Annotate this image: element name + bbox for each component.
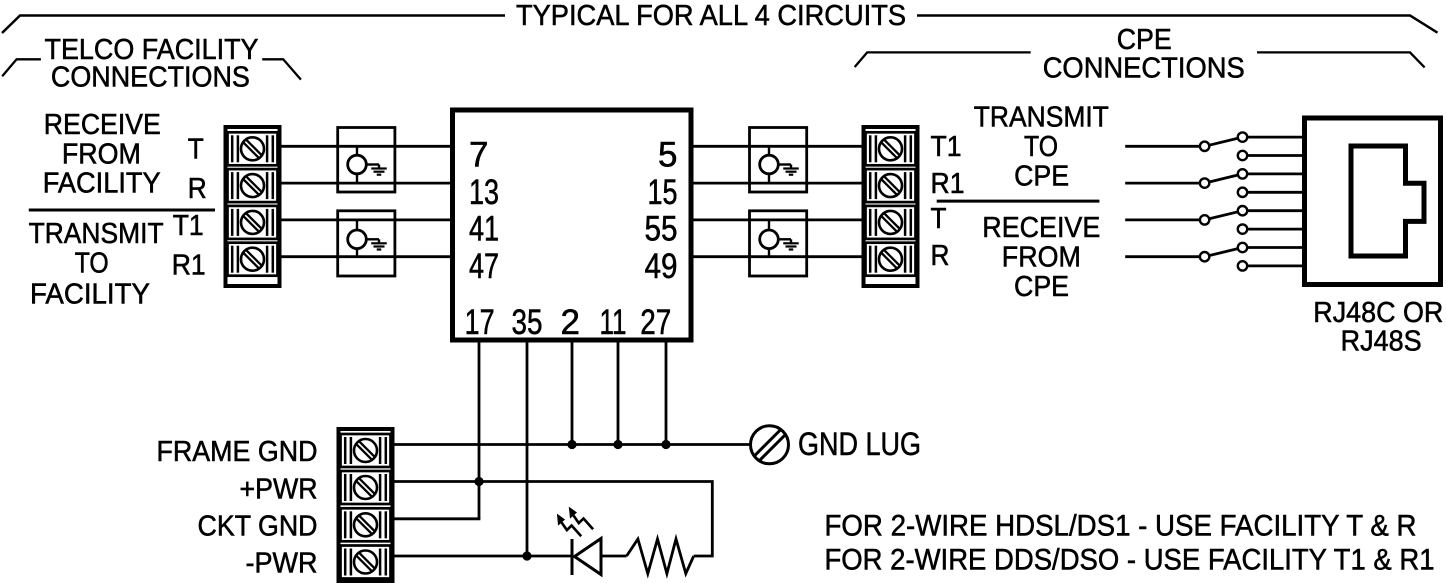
svg-text:T: T xyxy=(931,203,947,235)
svg-text:FOR 2-WIRE HDSL/DS1 - USE FACI: FOR 2-WIRE HDSL/DS1 - USE FACILITY T & R xyxy=(825,510,1417,543)
header line right xyxy=(917,16,1438,33)
switch SW3 throw contacts xyxy=(1238,206,1247,215)
junction pin35/-pwr xyxy=(522,551,531,560)
junction pin17/+pwr xyxy=(474,477,483,486)
switch SW4 throw contacts xyxy=(1238,243,1247,252)
wire IC pin 49 to CPE protector/block xyxy=(692,255,862,258)
cpe bracket right xyxy=(1257,52,1425,67)
wire FRAME GND row to gnd lug xyxy=(395,443,751,446)
svg-text:+PWR: +PWR xyxy=(240,473,318,505)
terminal block TB1 (telco) xyxy=(226,127,280,286)
TB3 terminal FRAME GND xyxy=(341,434,391,467)
wire switch feed 2 xyxy=(1125,182,1201,185)
svg-text:RECEIVE: RECEIVE xyxy=(982,212,1100,244)
surge protector box (cpe T/R) xyxy=(750,211,807,276)
wire throw 2b to jack xyxy=(1243,191,1305,194)
junction pin2/frame gnd xyxy=(567,440,576,449)
svg-text:CPE: CPE xyxy=(1014,271,1069,303)
wire switch feed 3 xyxy=(1125,218,1201,221)
svg-text:R: R xyxy=(931,240,950,272)
separator line right xyxy=(937,200,1100,203)
LED D1 triangle xyxy=(575,539,602,575)
svg-text:RJ48S: RJ48S xyxy=(1341,326,1422,358)
svg-text:T1: T1 xyxy=(931,131,962,163)
svg-text:FROM: FROM xyxy=(62,138,141,170)
switch SW1 blade xyxy=(1205,137,1243,146)
separator line left xyxy=(29,209,215,212)
terminal block TB3 (power) xyxy=(339,429,393,581)
TB2 terminal T1 xyxy=(866,132,916,165)
switch SW1 throw contacts xyxy=(1238,132,1247,141)
wire throw 3b to jack xyxy=(1243,228,1305,231)
svg-text:TO: TO xyxy=(75,248,109,280)
svg-text:7: 7 xyxy=(469,136,488,175)
svg-text:CONNECTIONS: CONNECTIONS xyxy=(1043,53,1245,85)
svg-text:TRANSMIT: TRANSMIT xyxy=(29,218,164,250)
telco bracket left xyxy=(2,59,41,76)
svg-text:RECEIVE: RECEIVE xyxy=(44,109,161,141)
junction pin11/frame gnd xyxy=(613,440,622,449)
TB3 terminal CKT GND xyxy=(341,508,391,541)
wire IC pin 5 to CPE protector/block xyxy=(692,145,862,148)
svg-text:TYPICAL FOR ALL 4 CIRCUITS: TYPICAL FOR ALL 4 CIRCUITS xyxy=(516,0,906,32)
svg-text:11: 11 xyxy=(600,303,627,342)
wire T1 row (telco block to IC pin 41) xyxy=(282,218,453,221)
wire throw 4b to jack xyxy=(1243,264,1305,267)
wire IC pin 11 vertical xyxy=(617,340,620,445)
svg-text:CPE: CPE xyxy=(1117,24,1172,56)
wire switch feed 4 xyxy=(1125,255,1201,258)
wire IC pin 35 vertical xyxy=(526,340,529,556)
wire throw 3a to jack xyxy=(1243,209,1305,212)
svg-text:GND LUG: GND LUG xyxy=(798,426,921,462)
surge protector box (cpe T1/R1) xyxy=(750,128,807,193)
svg-text:15: 15 xyxy=(648,173,678,212)
header line left xyxy=(2,16,505,34)
connector J1 RJ48 plug profile xyxy=(1351,146,1424,256)
TB1 terminal R xyxy=(228,169,278,202)
wire throw 2a to jack xyxy=(1243,172,1305,175)
wire R1 row (telco block to IC pin 47) xyxy=(282,255,453,258)
svg-text:35: 35 xyxy=(512,303,543,342)
switch SW2 blade xyxy=(1205,174,1243,183)
TB2 terminal R xyxy=(866,243,916,276)
wire +PWR row to resistor xyxy=(395,482,713,557)
wire CKT GND row xyxy=(395,517,481,520)
wire IC pin 15 to CPE protector/block xyxy=(692,182,862,185)
ground lug symbol xyxy=(751,426,789,464)
wire IC pin 27 vertical xyxy=(665,340,668,445)
resistor R1 xyxy=(627,539,694,574)
svg-text:47: 47 xyxy=(469,247,499,286)
switch SW2 throw contacts xyxy=(1238,169,1247,178)
svg-text:-PWR: -PWR xyxy=(246,547,318,579)
switch SW3 pole contact xyxy=(1200,215,1209,224)
svg-text:5: 5 xyxy=(658,136,677,175)
surge protector box (telco T1/R1) xyxy=(338,211,395,276)
svg-text:FROM: FROM xyxy=(1002,242,1081,274)
connector J1 RJ48 jack body xyxy=(1305,118,1441,285)
TB2 terminal R1 xyxy=(866,169,916,202)
switch SW4 pole contact xyxy=(1200,252,1209,261)
svg-text:R: R xyxy=(188,173,207,205)
terminal block TB2 (cpe) xyxy=(864,127,918,286)
svg-text:FOR 2-WIRE DDS/DSO - USE FACIL: FOR 2-WIRE DDS/DSO - USE FACILITY T1 & R… xyxy=(825,544,1435,577)
svg-text:FACILITY: FACILITY xyxy=(43,168,161,200)
svg-text:RJ48C OR: RJ48C OR xyxy=(1313,297,1443,329)
svg-text:R1: R1 xyxy=(172,250,206,282)
wire R row (telco block to IC pin 13) xyxy=(282,182,453,185)
svg-text:TO: TO xyxy=(1024,131,1058,163)
wire IC pin 17 vertical xyxy=(478,340,481,519)
svg-text:FRAME GND: FRAME GND xyxy=(157,436,318,468)
wire LED to resistor xyxy=(601,555,627,558)
svg-text:TRANSMIT: TRANSMIT xyxy=(974,102,1109,134)
svg-text:FACILITY: FACILITY xyxy=(30,278,150,310)
switch SW3 blade xyxy=(1205,211,1243,220)
wire IC pin 2 vertical xyxy=(571,340,574,445)
svg-text:41: 41 xyxy=(469,210,499,249)
TB3 terminal -PWR xyxy=(341,546,391,579)
svg-text:CONNECTIONS: CONNECTIONS xyxy=(51,62,250,94)
TB1 terminal T1 xyxy=(228,206,278,239)
svg-text:2: 2 xyxy=(560,303,579,342)
switch SW2 pole contact xyxy=(1200,178,1209,187)
svg-text:27: 27 xyxy=(640,303,671,342)
cpe bracket left xyxy=(855,52,1031,67)
TB1 terminal T xyxy=(228,132,278,165)
LED D1 emission arrows xyxy=(569,507,593,530)
junction pin27/frame gnd xyxy=(661,440,670,449)
svg-text:55: 55 xyxy=(645,210,678,249)
IC U1 box xyxy=(453,110,692,340)
svg-text:17: 17 xyxy=(465,303,495,342)
TB3 terminal +PWR xyxy=(341,471,391,504)
TB1 terminal R1 xyxy=(228,243,278,276)
wire -PWR row to LED xyxy=(395,555,573,558)
svg-text:T: T xyxy=(188,133,204,165)
svg-text:R1: R1 xyxy=(931,168,965,200)
surge protector box (telco T/R) xyxy=(338,128,395,193)
telco bracket right xyxy=(262,59,301,79)
svg-text:13: 13 xyxy=(469,173,499,212)
wire throw 1a to jack xyxy=(1243,136,1305,139)
TB2 terminal T xyxy=(866,206,916,239)
switch SW1 pole contact xyxy=(1200,142,1209,151)
wire T row (telco block to IC pin 7) xyxy=(282,145,453,148)
svg-text:CPE: CPE xyxy=(1014,161,1069,193)
LED D1 cathode bar xyxy=(571,539,574,575)
switch SW4 blade xyxy=(1205,248,1243,257)
svg-text:49: 49 xyxy=(645,247,678,286)
svg-text:CKT GND: CKT GND xyxy=(198,510,318,542)
wire switch feed 1 xyxy=(1125,145,1201,148)
svg-text:T1: T1 xyxy=(173,210,204,242)
wire throw 1b to jack xyxy=(1243,154,1305,157)
wire IC pin 55 to CPE protector/block xyxy=(692,218,862,221)
wire throw 4a to jack xyxy=(1243,246,1305,249)
